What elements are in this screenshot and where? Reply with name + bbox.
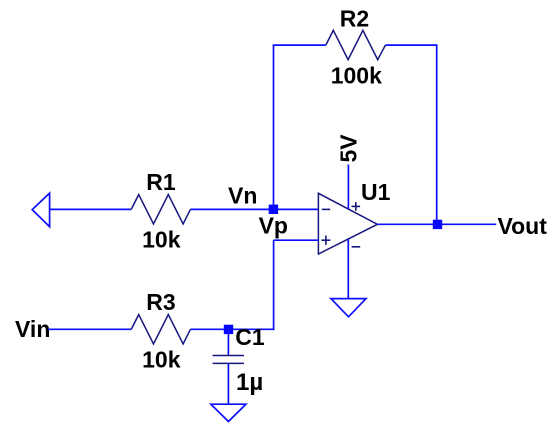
resistor R3 xyxy=(131,315,190,344)
op-amp U1 inverting input mark xyxy=(322,208,330,210)
wire (down to output node) xyxy=(436,44,438,224)
svg-text:U1: U1 xyxy=(361,179,391,205)
wire (op-amp V- pin to ground) xyxy=(347,239,349,298)
wire (5V supply to op-amp V+ pin) xyxy=(347,165,349,209)
resistor R1 xyxy=(131,195,190,224)
op-amp U1 triangle xyxy=(318,193,377,254)
svg-text:Vp: Vp xyxy=(259,212,288,238)
junction output node xyxy=(433,220,442,229)
svg-text:10k: 10k xyxy=(142,227,181,253)
svg-text:Vin: Vin xyxy=(15,316,50,342)
wire (Vp vertical down to C1 junction level) xyxy=(273,240,275,329)
resistor R2 xyxy=(326,30,386,59)
svg-text:10k: 10k xyxy=(142,347,181,373)
junction C1 node xyxy=(224,325,233,334)
op-amp U1 non-inverting input mark xyxy=(321,236,330,245)
svg-text:R1: R1 xyxy=(146,169,176,195)
svg-text:R2: R2 xyxy=(340,5,369,31)
ground (op-amp V-) xyxy=(331,299,366,317)
svg-text:Vn: Vn xyxy=(228,183,257,209)
svg-text:Vout: Vout xyxy=(498,213,548,239)
wire (R3 through C1 junction to Vp riser) xyxy=(190,328,274,330)
op-amp U1 V- pin mark xyxy=(352,246,361,248)
wire (Vin to R3) xyxy=(48,328,131,330)
junction Vn node xyxy=(269,205,278,214)
wire (R2 to output drop) xyxy=(385,44,436,46)
wire (op-amp output to Vout) xyxy=(377,223,496,225)
wire (R1 to op-amp inverting input, through Vn node) xyxy=(190,208,318,210)
wire (Vp horizontal to non-inverting input) xyxy=(274,239,319,241)
svg-text:R3: R3 xyxy=(146,289,175,315)
svg-text:1µ: 1µ xyxy=(236,369,263,396)
capacitor C1 plates xyxy=(213,356,244,364)
svg-text:5V: 5V xyxy=(336,134,362,163)
wire (top left corner to R2) xyxy=(273,44,326,46)
svg-text:C1: C1 xyxy=(235,324,265,350)
wire (junction down to C1 top plate) xyxy=(227,329,229,355)
wire (Vn node up to feedback) xyxy=(273,45,275,209)
port arrow (left input flag) xyxy=(32,193,49,227)
op-amp U1 V+ pin mark xyxy=(352,202,361,211)
svg-text:100k: 100k xyxy=(331,63,382,89)
wire (arrow to R1) xyxy=(50,208,132,210)
ground (C1) xyxy=(211,404,246,421)
wire (C1 bottom plate to ground) xyxy=(227,363,229,404)
